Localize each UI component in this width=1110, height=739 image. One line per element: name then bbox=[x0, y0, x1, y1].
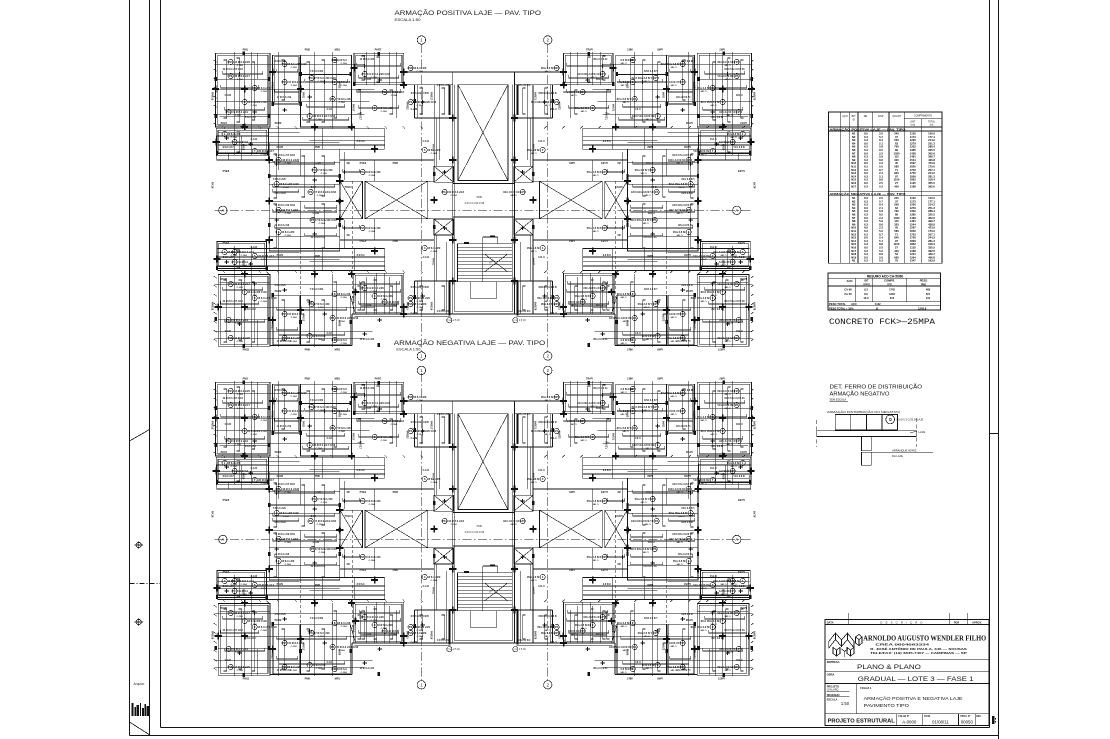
svg-text:C-184: C-184 bbox=[642, 551, 649, 554]
column crosses bbox=[241, 417, 248, 419]
svg-text:Ø 6.3 c/20: Ø 6.3 c/20 bbox=[275, 284, 287, 287]
svg-text:C-184: C-184 bbox=[670, 645, 677, 648]
svg-text:5.3: 5.3 bbox=[879, 259, 883, 263]
svg-text:Ø 6.3 c/20 C/18: Ø 6.3 c/20 C/18 bbox=[248, 100, 267, 104]
svg-text:C-184: C-184 bbox=[261, 258, 268, 261]
svg-text:PM8: PM8 bbox=[647, 254, 653, 258]
svg-text:C-112: C-112 bbox=[538, 256, 545, 259]
svg-text:7 Ø 6.3 c/20 C/18: 7 Ø 6.3 c/20 C/18 bbox=[630, 547, 651, 551]
small shaft box upper bbox=[514, 166, 533, 182]
svg-text:P10: P10 bbox=[653, 405, 658, 409]
svg-text:2: 2 bbox=[547, 682, 550, 687]
svg-text:C-239: C-239 bbox=[549, 108, 556, 111]
stair top black stubs bbox=[464, 242, 469, 244]
svg-text:4 Ø 10 c/10: 4 Ø 10 c/10 bbox=[517, 84, 530, 87]
svg-text:AÇO: AÇO bbox=[851, 303, 857, 306]
svg-text:C-112: C-112 bbox=[423, 585, 430, 588]
svg-text:C-124: C-124 bbox=[251, 467, 258, 470]
svg-text:P24: P24 bbox=[680, 409, 685, 413]
svg-text:C-64: C-64 bbox=[651, 515, 657, 518]
svg-text:Ø 6.3 c/18: Ø 6.3 c/18 bbox=[338, 292, 351, 296]
left wing upper walls bbox=[216, 457, 268, 484]
svg-text:9 Ø 6.3: 9 Ø 6.3 bbox=[338, 667, 347, 671]
svg-text:C-184: C-184 bbox=[544, 70, 551, 73]
svg-text:2: 2 bbox=[547, 368, 550, 373]
registration target mark 2 bbox=[136, 619, 141, 624]
svg-text:Ø 6.3 c/20 C/18: Ø 6.3 c/20 C/18 bbox=[700, 619, 719, 623]
svg-text:C-184: C-184 bbox=[724, 407, 731, 410]
svg-text:P21: P21 bbox=[228, 60, 233, 64]
svg-text:C-184: C-184 bbox=[710, 433, 717, 436]
svg-text:MR1: MR1 bbox=[335, 348, 341, 352]
svg-text:DET. FERRO DE DISTRIBUIÇÃO: DET. FERRO DE DISTRIBUIÇÃO bbox=[830, 384, 923, 391]
svg-text:PM15: PM15 bbox=[242, 589, 245, 596]
svg-text:P14: P14 bbox=[226, 110, 231, 114]
corridor vertical double wall bbox=[552, 414, 554, 447]
apartment block top-left outer walls bbox=[216, 53, 270, 127]
svg-text:Ø 8.0 c/18: Ø 8.0 c/18 bbox=[711, 116, 723, 119]
corridor vertical double wall bbox=[552, 85, 554, 118]
svg-text:Ø 6.3 c/20: Ø 6.3 c/20 bbox=[428, 246, 441, 250]
svg-text:PAR7: PAR7 bbox=[585, 377, 592, 381]
svg-text:C-184: C-184 bbox=[237, 286, 244, 289]
svg-text:C-184: C-184 bbox=[381, 298, 388, 301]
svg-text:Ø 6.3 c/20: Ø 6.3 c/20 bbox=[726, 132, 739, 136]
svg-text:P12: P12 bbox=[520, 190, 525, 194]
svg-text:P25: P25 bbox=[228, 336, 233, 340]
svg-text:C-184: C-184 bbox=[510, 523, 517, 526]
svg-text:15 Ø 8.0 c/18: 15 Ø 8.0 c/18 bbox=[663, 409, 679, 413]
svg-text:C-184: C-184 bbox=[251, 623, 258, 626]
svg-text:C-184: C-184 bbox=[339, 430, 346, 433]
svg-text:C-184: C-184 bbox=[620, 342, 627, 345]
svg-text:C-184: C-184 bbox=[261, 419, 268, 422]
svg-text:PAR19: PAR19 bbox=[430, 631, 434, 640]
svg-text:MR1: MR1 bbox=[627, 348, 633, 352]
top-left apartment partitions bbox=[722, 53, 724, 127]
svg-text:(cm): (cm) bbox=[911, 125, 916, 127]
svg-text:C-184: C-184 bbox=[595, 78, 602, 81]
svg-text:79: 79 bbox=[895, 259, 898, 263]
svg-text:7: 7 bbox=[711, 478, 713, 482]
svg-text:C-64: C-64 bbox=[635, 437, 641, 440]
svg-text:C-112: C-112 bbox=[423, 469, 430, 472]
svg-text:Ø 8.0 c/18: Ø 8.0 c/18 bbox=[711, 308, 723, 311]
svg-text:17 Ø 6.3 c/19: 17 Ø 6.3 c/19 bbox=[238, 250, 254, 254]
wall joining wing bbox=[697, 457, 700, 478]
svg-text:P9: P9 bbox=[734, 74, 738, 78]
svg-text:C-184: C-184 bbox=[285, 234, 292, 237]
svg-text:PAV20: PAV20 bbox=[533, 473, 536, 481]
svg-text:PM5: PM5 bbox=[647, 474, 653, 478]
svg-text:PVE6: PVE6 bbox=[223, 498, 230, 502]
svg-text:P4: P4 bbox=[632, 645, 636, 649]
svg-text:P24: P24 bbox=[282, 80, 287, 84]
floor plan 2: armacao negativa (lower) bbox=[211, 373, 757, 681]
svg-text:APROV.: APROV. bbox=[972, 620, 982, 624]
svg-text:11 Ø 6.3 c/20: 11 Ø 6.3 c/20 bbox=[368, 615, 384, 619]
svg-text:Ø 6.3 c/20: Ø 6.3 c/20 bbox=[696, 86, 709, 90]
svg-text:RESUMO AÇO CA-50/60: RESUMO AÇO CA-50/60 bbox=[867, 275, 904, 279]
svg-text:1:50: 1:50 bbox=[841, 701, 850, 706]
svg-text:C-184: C-184 bbox=[316, 667, 323, 670]
svg-text:PM14: PM14 bbox=[242, 144, 245, 151]
svg-text:Ø 6.3 c/18: Ø 6.3 c/18 bbox=[681, 192, 693, 195]
svg-text:17 Ø 6.3 c/19: 17 Ø 6.3 c/19 bbox=[719, 318, 735, 322]
svg-text:C-184: C-184 bbox=[676, 162, 683, 165]
svg-text:CONCRETO FCK>—25MPA: CONCRETO FCK>—25MPA bbox=[829, 317, 936, 327]
svg-text:P7: P7 bbox=[734, 611, 738, 615]
svg-text:C-184: C-184 bbox=[676, 563, 683, 566]
svg-text:PAV9: PAV9 bbox=[684, 582, 691, 586]
svg-text:PAV9: PAV9 bbox=[277, 253, 284, 257]
svg-text:22 Ø 8.0 c/17 C/18: 22 Ø 8.0 c/17 C/18 bbox=[223, 300, 244, 303]
svg-text:C-184: C-184 bbox=[417, 104, 424, 107]
svg-text:PM3: PM3 bbox=[569, 161, 575, 165]
svg-text:P13: P13 bbox=[600, 72, 605, 76]
sheet border: inner left margin line bbox=[160, 0, 162, 728]
svg-text:PM1: PM1 bbox=[719, 377, 725, 381]
svg-text:C-184: C-184 bbox=[670, 413, 677, 416]
apartment block bottom-left outer walls bbox=[697, 603, 749, 675]
svg-text:C-64: C-64 bbox=[651, 186, 657, 189]
svg-text:C-184: C-184 bbox=[391, 94, 398, 97]
svg-text:4 Ø 10 c/10: 4 Ø 10 c/10 bbox=[517, 310, 530, 313]
svg-text:PAV19: PAV19 bbox=[613, 296, 616, 304]
svg-text:PM14: PM14 bbox=[723, 473, 726, 480]
svg-text:P20: P20 bbox=[602, 226, 607, 230]
svg-text:7 Ø 8.0 c/18: 7 Ø 8.0 c/18 bbox=[336, 97, 351, 101]
rebar run lines bbox=[223, 71, 263, 74]
svg-text:PAV2: PAV2 bbox=[302, 421, 305, 428]
svg-text:PM11: PM11 bbox=[717, 677, 724, 681]
svg-text:C-124: C-124 bbox=[709, 246, 716, 249]
svg-text:C-184: C-184 bbox=[431, 481, 438, 484]
svg-text:C-184: C-184 bbox=[676, 491, 683, 494]
svg-text:C-184: C-184 bbox=[735, 659, 742, 662]
svg-text:C-184: C-184 bbox=[580, 110, 587, 113]
svg-text:5: 5 bbox=[424, 148, 426, 152]
svg-text:C-184: C-184 bbox=[530, 250, 537, 253]
svg-text:10 Ø 8.0 c/18: 10 Ø 8.0 c/18 bbox=[503, 519, 519, 523]
svg-text:5: 5 bbox=[541, 148, 543, 152]
svg-text:11 Ø 6.3 c/20: 11 Ø 6.3 c/20 bbox=[583, 286, 599, 290]
svg-text:7 Ø 6.3 C/64: 7 Ø 6.3 C/64 bbox=[310, 288, 324, 291]
svg-text:PAVIMENTO TIPO: PAVIMENTO TIPO bbox=[864, 703, 910, 708]
lower corridor band parallel lines bbox=[583, 577, 750, 579]
svg-text:17 Ø 6.3 c/19: 17 Ø 6.3 c/19 bbox=[277, 425, 292, 428]
detail: slab band bbox=[817, 430, 917, 436]
svg-text:C-184: C-184 bbox=[622, 101, 629, 104]
small shaft box upper bbox=[514, 495, 533, 511]
svg-text:Ø 8.0 c/18: Ø 8.0 c/18 bbox=[711, 637, 723, 640]
svg-text:P18: P18 bbox=[650, 497, 655, 501]
svg-text:P4: P4 bbox=[331, 426, 335, 430]
svg-text:C-184: C-184 bbox=[291, 66, 298, 69]
svg-text:C-184: C-184 bbox=[724, 393, 731, 396]
svg-text:PESO TOTAL + 10%: PESO TOTAL + 10% bbox=[829, 306, 854, 310]
svg-text:C-184: C-184 bbox=[365, 78, 372, 81]
svg-text:14 Ø 6.3 c/20 C/18: 14 Ø 6.3 c/20 C/18 bbox=[414, 100, 436, 104]
bottom middle room 1 bbox=[668, 295, 694, 345]
svg-text:C-184: C-184 bbox=[341, 84, 348, 87]
right half of floor plan (mirrored) bbox=[503, 377, 757, 681]
svg-text:PM9: PM9 bbox=[305, 677, 311, 681]
svg-text:PROJETO ESTRUTURAL: PROJETO ESTRUTURAL bbox=[828, 719, 895, 725]
svg-text:C-337: C-337 bbox=[645, 491, 652, 494]
svg-text:PAV21: PAV21 bbox=[533, 587, 536, 595]
title block revision ticks bbox=[847, 613, 849, 619]
svg-text:C-184: C-184 bbox=[316, 447, 323, 450]
svg-text:P25: P25 bbox=[734, 336, 739, 340]
svg-text:PAV10: PAV10 bbox=[345, 186, 353, 189]
svg-text:P14: P14 bbox=[736, 647, 741, 651]
svg-text:400: 400 bbox=[894, 184, 899, 188]
svg-text:Ø 8.0 c/20 C/18: Ø 8.0 c/20 C/18 bbox=[280, 182, 299, 186]
svg-text:PM4: PM4 bbox=[569, 568, 575, 572]
elevator core right wall bbox=[514, 72, 516, 314]
svg-text:PAR21: PAR21 bbox=[694, 322, 697, 330]
svg-text:P25: P25 bbox=[734, 665, 739, 669]
svg-text:1: 1 bbox=[741, 461, 743, 465]
svg-text:Ø 6.3 c/20: Ø 6.3 c/20 bbox=[414, 302, 427, 306]
sheet border: right inner line bbox=[989, 0, 991, 728]
room D walls top-centre bbox=[354, 382, 404, 413]
svg-text:PAV8: PAV8 bbox=[684, 474, 691, 478]
detail: dashed extension lines bbox=[816, 420, 818, 447]
svg-text:(mm): (mm) bbox=[863, 283, 869, 286]
svg-text:PVE6: PVE6 bbox=[737, 169, 744, 173]
table section band: armacao positiva bbox=[829, 126, 942, 128]
svg-text:PM14: PM14 bbox=[242, 473, 245, 480]
svg-text:Ø 8.0 c/18: Ø 8.0 c/18 bbox=[313, 663, 326, 667]
svg-text:P4: P4 bbox=[632, 97, 636, 101]
svg-text:Ø 6.3 c/20: Ø 6.3 c/20 bbox=[258, 415, 271, 419]
svg-text:C-184: C-184 bbox=[700, 153, 707, 156]
svg-text:PAR23: PAR23 bbox=[559, 631, 562, 639]
svg-text:17 Ø 6.3 c/19: 17 Ø 6.3 c/19 bbox=[232, 647, 248, 651]
svg-text:7: 7 bbox=[721, 290, 723, 294]
building top edge centre bbox=[404, 400, 564, 402]
detail: laje label and leader bbox=[910, 431, 917, 433]
svg-text:11 Ø 6.3 c/20: 11 Ø 6.3 c/20 bbox=[368, 286, 384, 290]
svg-text:P12: P12 bbox=[442, 190, 447, 194]
svg-text:Ø 8.0 c/18: Ø 8.0 c/18 bbox=[245, 116, 257, 119]
svg-text:P5: P5 bbox=[652, 547, 656, 551]
svg-text:PM4: PM4 bbox=[393, 239, 399, 243]
svg-text:PAV8: PAV8 bbox=[684, 145, 691, 149]
svg-text:8 Ø 6.3 c/20: 8 Ø 6.3 c/20 bbox=[366, 170, 381, 174]
svg-text:28 Ø 8.0 c/17: 28 Ø 8.0 c/17 bbox=[717, 611, 733, 615]
svg-text:Ø 8.0 c/17: Ø 8.0 c/17 bbox=[733, 585, 745, 588]
svg-text:8 Ø 6.3 c/20: 8 Ø 6.3 c/20 bbox=[366, 226, 381, 230]
svg-text:C-184: C-184 bbox=[316, 118, 323, 121]
svg-text:C-184: C-184 bbox=[676, 541, 683, 544]
svg-text:PM1: PM1 bbox=[243, 48, 249, 52]
svg-text:3: 3 bbox=[656, 114, 658, 118]
svg-text:PVE4: PVE4 bbox=[600, 568, 607, 572]
svg-text:17 Ø 6.3 c/19: 17 Ø 6.3 c/19 bbox=[232, 110, 248, 114]
svg-text:PVE3: PVE3 bbox=[600, 161, 607, 165]
svg-text:ARMAÇÃO NEGATIVO: ARMAÇÃO NEGATIVO bbox=[830, 391, 890, 398]
svg-text:(m): (m) bbox=[930, 125, 934, 127]
svg-text:C-184: C-184 bbox=[431, 579, 438, 582]
svg-text:17 Ø 8.0 c/19 C/64: 17 Ø 8.0 c/19 C/64 bbox=[275, 204, 296, 207]
svg-text:P14: P14 bbox=[226, 318, 231, 322]
svg-text:4: 4 bbox=[424, 575, 426, 579]
svg-text:C-112: C-112 bbox=[423, 256, 430, 259]
svg-text:PROJ. Nº: PROJ. Nº bbox=[960, 715, 970, 718]
svg-text:Ø: Ø bbox=[853, 118, 855, 122]
svg-text:N1: N1 bbox=[852, 259, 856, 263]
svg-text:C-184: C-184 bbox=[670, 316, 677, 319]
svg-text:PAR17: PAR17 bbox=[430, 92, 434, 101]
svg-text:C-184: C-184 bbox=[417, 635, 424, 638]
svg-text:Ø 6.3 c/20: Ø 6.3 c/20 bbox=[726, 461, 739, 465]
room B walls bbox=[667, 55, 695, 105]
svg-text:Ø 8.0 c/17: Ø 8.0 c/17 bbox=[733, 146, 745, 149]
svg-text:P25: P25 bbox=[228, 665, 233, 669]
svg-text:PAV4: PAV4 bbox=[740, 450, 747, 454]
svg-text:P27: P27 bbox=[680, 641, 685, 645]
svg-text:PESO TOTAL: PESO TOTAL bbox=[829, 302, 846, 306]
svg-text:PVE7: PVE7 bbox=[223, 241, 230, 245]
svg-text:C-184: C-184 bbox=[369, 174, 376, 177]
svg-text:17 Ø 6.3 c/19: 17 Ø 6.3 c/19 bbox=[277, 669, 292, 672]
stair lower landing bbox=[471, 282, 496, 299]
stamp mark right of title block bbox=[992, 716, 995, 724]
svg-text:C-184: C-184 bbox=[313, 541, 320, 544]
svg-text:17 Ø 8.0 c/19 C/64: 17 Ø 8.0 c/19 C/64 bbox=[275, 533, 296, 536]
svg-text:PVE6: PVE6 bbox=[737, 498, 744, 502]
svg-text:C-184: C-184 bbox=[620, 62, 627, 65]
svg-text:11 Ø 6.3 c/20 C/18: 11 Ø 6.3 c/20 C/18 bbox=[368, 401, 390, 405]
svg-text:C-184: C-184 bbox=[339, 101, 346, 104]
svg-text:3: 3 bbox=[224, 250, 226, 254]
long distribution bars bbox=[593, 417, 753, 419]
svg-text:PM9: PM9 bbox=[657, 677, 663, 681]
svg-text:C-184: C-184 bbox=[341, 671, 348, 674]
svg-text:Ø 6.3 c/20 C/18: Ø 6.3 c/20 C/18 bbox=[690, 296, 709, 300]
svg-text:C-184: C-184 bbox=[724, 64, 731, 67]
svg-text:PAR23: PAR23 bbox=[406, 631, 409, 639]
svg-text:22 Ø 8.0 c/17: 22 Ø 8.0 c/17 bbox=[258, 478, 274, 482]
svg-text:C-112: C-112 bbox=[538, 140, 545, 143]
rebar position annotations bbox=[228, 73, 233, 78]
svg-text:17 Ø 8.0 c/19 C/64: 17 Ø 8.0 c/19 C/64 bbox=[672, 533, 693, 536]
small cross ticks on bars bbox=[725, 73, 729, 75]
svg-text:17 Ø 6.3 c/19: 17 Ø 6.3 c/19 bbox=[713, 250, 729, 254]
svg-text:17 Ø 6.3 c/19: 17 Ø 6.3 c/19 bbox=[232, 318, 248, 322]
svg-text:7: 7 bbox=[254, 149, 256, 153]
svg-text:REV.: REV. bbox=[976, 716, 982, 718]
svg-text:9: 9 bbox=[374, 623, 376, 627]
room C walls (dashed right edge) bbox=[301, 55, 352, 127]
annotation bubbles below core bbox=[447, 318, 452, 323]
svg-text:11 Ø 6.3 c/20 C/18: 11 Ø 6.3 c/20 C/18 bbox=[368, 72, 390, 76]
svg-text:C-184: C-184 bbox=[261, 587, 268, 590]
svg-text:P19: P19 bbox=[360, 170, 365, 174]
svg-text:C-184: C-184 bbox=[225, 330, 232, 333]
svg-text:C-184: C-184 bbox=[510, 194, 517, 197]
svg-text:28 Ø 8.0 c/17: 28 Ø 8.0 c/17 bbox=[234, 403, 250, 407]
svg-text:Ø 6.3 c/20: Ø 6.3 c/20 bbox=[228, 132, 241, 136]
bottom centre-left room bbox=[563, 273, 614, 314]
svg-text:P12: P12 bbox=[520, 519, 525, 523]
corridor walls bbox=[515, 413, 564, 415]
svg-text:C-184: C-184 bbox=[620, 625, 627, 628]
svg-text:7 Ø 8.0 c/18: 7 Ø 8.0 c/18 bbox=[616, 97, 631, 101]
svg-text:P9: P9 bbox=[229, 74, 233, 78]
svg-text:P17: P17 bbox=[730, 260, 735, 264]
svg-text:AÇO: AÇO bbox=[842, 114, 848, 118]
svg-text:C-184: C-184 bbox=[381, 439, 388, 442]
stair cross brace bbox=[485, 583, 507, 600]
mid-left small rooms cluster bbox=[699, 465, 751, 489]
svg-text:P23: P23 bbox=[332, 387, 337, 391]
svg-text:Ø 6.3 c/20 C/18: Ø 6.3 c/20 C/18 bbox=[258, 296, 277, 300]
revision header row bbox=[825, 623, 989, 625]
left wing lower walls bbox=[701, 242, 751, 269]
svg-text:PM4: PM4 bbox=[569, 239, 575, 243]
svg-text:P17: P17 bbox=[232, 589, 237, 593]
svg-text:4 Ø 10 c/10: 4 Ø 10 c/10 bbox=[517, 413, 530, 416]
svg-text:7 Ø 6.3 C/64: 7 Ø 6.3 C/64 bbox=[643, 70, 657, 73]
svg-text:(kg): (kg) bbox=[921, 283, 926, 286]
svg-text:8 Ø 6.3: 8 Ø 6.3 bbox=[357, 140, 366, 143]
svg-text:C-124: C-124 bbox=[709, 575, 716, 578]
svg-text:C-184: C-184 bbox=[341, 62, 348, 65]
svg-text:22 Ø 8.0 c/17: 22 Ø 8.0 c/17 bbox=[258, 149, 274, 153]
svg-text:Ø 6.3 c/20: Ø 6.3 c/20 bbox=[228, 461, 241, 465]
svg-text:C-184: C-184 bbox=[291, 669, 298, 672]
room C walls (dashed right edge) bbox=[616, 384, 667, 456]
svg-text:C-184: C-184 bbox=[670, 84, 677, 87]
svg-text:C-184: C-184 bbox=[317, 523, 324, 526]
svg-text:C-124: C-124 bbox=[709, 138, 716, 141]
svg-text:1742: 1742 bbox=[889, 287, 895, 291]
svg-text:Ø 6.3 c/20: Ø 6.3 c/20 bbox=[414, 66, 427, 70]
room B walls bbox=[667, 384, 695, 434]
svg-text:1: 1 bbox=[741, 132, 743, 136]
svg-text:C-184: C-184 bbox=[544, 104, 551, 107]
svg-text:P19: P19 bbox=[602, 170, 607, 174]
svg-text:P13: P13 bbox=[600, 286, 605, 290]
svg-text:P19: P19 bbox=[602, 499, 607, 503]
svg-text:C-184: C-184 bbox=[544, 306, 551, 309]
svg-text:C-337: C-337 bbox=[315, 162, 322, 165]
svg-text:PAV17: PAV17 bbox=[352, 104, 355, 112]
svg-text:PAR22: PAR22 bbox=[406, 431, 409, 439]
svg-text:6: 6 bbox=[278, 230, 280, 234]
side elevator small box bbox=[340, 510, 362, 548]
svg-text:P6: P6 bbox=[686, 487, 690, 491]
svg-text:C-184: C-184 bbox=[261, 482, 268, 485]
svg-text:7 Ø 6.3 c/20: 7 Ø 6.3 c/20 bbox=[681, 507, 695, 510]
svg-text:PM15: PM15 bbox=[242, 260, 245, 267]
middle block walls bbox=[269, 478, 340, 580]
svg-text:C-184: C-184 bbox=[431, 152, 438, 155]
svg-text:P9: P9 bbox=[229, 403, 233, 407]
svg-text:PVE4: PVE4 bbox=[360, 239, 367, 243]
svg-text:C-184: C-184 bbox=[640, 172, 647, 175]
svg-text:PAV21: PAV21 bbox=[432, 258, 435, 266]
plot stamp barcode marks bbox=[132, 703, 134, 716]
svg-text:P28: P28 bbox=[554, 66, 559, 70]
svg-text:C-64: C-64 bbox=[327, 437, 333, 440]
apartment block bottom-left outer walls bbox=[697, 274, 749, 346]
svg-text:P7: P7 bbox=[734, 282, 738, 286]
